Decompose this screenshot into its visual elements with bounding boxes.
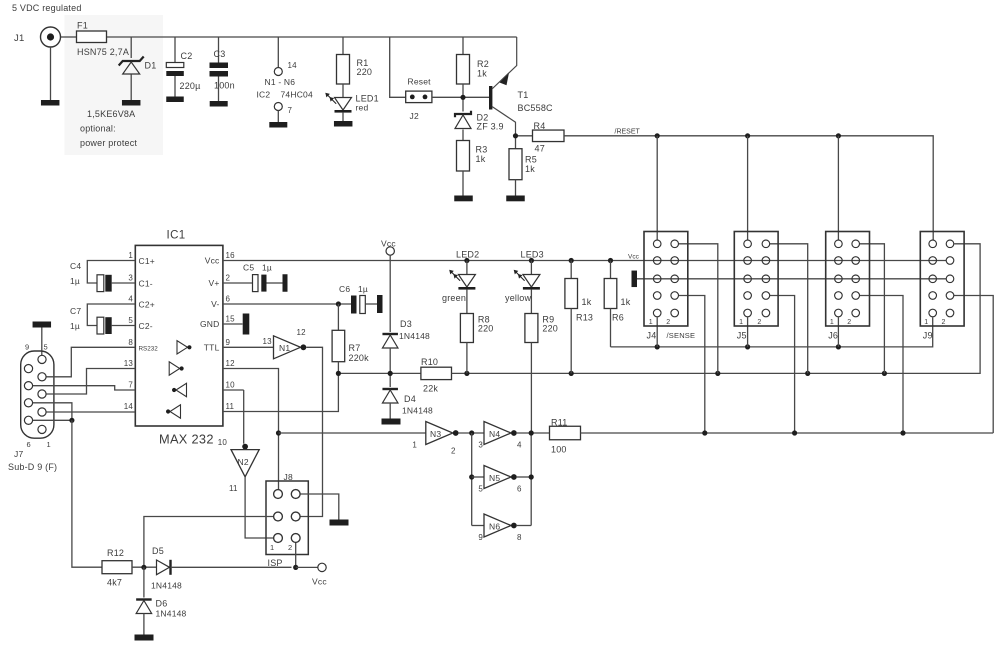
svg-text:2: 2: [226, 274, 231, 283]
svg-text:green: green: [442, 293, 466, 303]
svg-text:8: 8: [517, 533, 522, 542]
svg-text:LED3: LED3: [521, 250, 544, 260]
svg-text:6: 6: [517, 485, 522, 494]
svg-text:2: 2: [942, 319, 946, 326]
svg-text:10: 10: [226, 381, 236, 390]
svg-text:1: 1: [830, 319, 834, 326]
svg-text:R5: R5: [525, 155, 537, 165]
svg-text:1µ: 1µ: [70, 321, 80, 331]
svg-text:5 VDC regulated: 5 VDC regulated: [12, 3, 82, 13]
svg-text:12: 12: [297, 328, 307, 337]
svg-text:14: 14: [124, 402, 134, 411]
svg-text:N1 - N6: N1 - N6: [265, 77, 296, 87]
svg-text:2: 2: [847, 319, 851, 326]
svg-text:1k: 1k: [621, 297, 631, 307]
svg-text:Reset: Reset: [408, 77, 432, 87]
svg-text:Vcc: Vcc: [205, 256, 220, 266]
svg-text:/RESET: /RESET: [615, 129, 641, 136]
svg-text:LED2: LED2: [456, 250, 479, 260]
svg-text:3: 3: [128, 274, 133, 283]
svg-text:3: 3: [478, 441, 483, 450]
svg-text:R4: R4: [534, 121, 546, 131]
svg-text:V+: V+: [208, 278, 219, 288]
svg-text:9: 9: [478, 533, 483, 542]
svg-text:11: 11: [229, 484, 238, 493]
svg-text:4k7: 4k7: [107, 578, 122, 588]
svg-text:C4: C4: [70, 261, 81, 271]
svg-text:N4: N4: [489, 429, 500, 439]
svg-text:/SENSE: /SENSE: [667, 331, 696, 340]
svg-text:C5: C5: [243, 263, 254, 273]
svg-text:100: 100: [551, 445, 567, 455]
svg-text:2: 2: [757, 319, 761, 326]
svg-text:N1: N1: [279, 343, 290, 353]
svg-text:R12: R12: [107, 548, 124, 558]
svg-text:16: 16: [226, 251, 236, 260]
svg-text:1: 1: [270, 543, 274, 552]
svg-text:C2-: C2-: [139, 321, 153, 331]
svg-text:D6: D6: [156, 599, 168, 609]
svg-text:C1+: C1+: [139, 256, 155, 266]
svg-text:7: 7: [128, 381, 133, 390]
svg-text:Vcc: Vcc: [312, 577, 327, 587]
svg-text:C7: C7: [70, 306, 81, 316]
svg-text:8: 8: [128, 338, 133, 347]
svg-text:GND: GND: [200, 319, 220, 329]
svg-text:6: 6: [226, 295, 231, 304]
svg-text:RS232: RS232: [139, 345, 159, 352]
svg-text:220k: 220k: [349, 353, 370, 363]
svg-text:1: 1: [47, 440, 51, 449]
svg-text:V-: V-: [211, 299, 219, 309]
svg-text:N3: N3: [430, 429, 441, 439]
svg-text:T1: T1: [518, 90, 529, 100]
svg-text:J5: J5: [737, 331, 747, 341]
svg-text:BC558C: BC558C: [518, 103, 554, 113]
svg-text:1,5KE6V8A: 1,5KE6V8A: [87, 109, 135, 119]
svg-text:ISP: ISP: [268, 558, 283, 568]
svg-text:220: 220: [542, 324, 558, 334]
svg-text:N5: N5: [489, 473, 500, 483]
svg-text:220: 220: [478, 324, 494, 334]
svg-text:2: 2: [288, 543, 292, 552]
svg-text:11: 11: [226, 402, 235, 411]
svg-text:1: 1: [739, 319, 743, 326]
svg-text:220: 220: [357, 67, 373, 77]
svg-text:1k: 1k: [525, 164, 535, 174]
svg-text:J9: J9: [923, 331, 933, 341]
svg-text:Sub-D 9 (F): Sub-D 9 (F): [8, 462, 57, 472]
svg-text:J7: J7: [14, 449, 23, 459]
svg-text:D5: D5: [152, 546, 164, 556]
svg-text:1µ: 1µ: [358, 284, 368, 294]
svg-text:1k: 1k: [582, 297, 592, 307]
svg-text:HSN75 2,7A: HSN75 2,7A: [77, 47, 129, 57]
svg-text:ZF 3.9: ZF 3.9: [477, 122, 504, 132]
svg-text:optional:: optional:: [80, 124, 116, 134]
svg-text:1k: 1k: [476, 154, 486, 164]
svg-text:22k: 22k: [423, 384, 438, 394]
svg-text:C2+: C2+: [139, 300, 155, 310]
svg-text:1µ: 1µ: [70, 276, 80, 286]
svg-text:R7: R7: [349, 343, 361, 353]
svg-text:1: 1: [649, 319, 653, 326]
svg-text:C1-: C1-: [139, 279, 153, 289]
svg-text:1: 1: [128, 251, 133, 260]
svg-text:47: 47: [535, 144, 545, 154]
svg-text:220µ: 220µ: [180, 81, 201, 91]
svg-text:D1: D1: [145, 61, 157, 71]
svg-text:1N4148: 1N4148: [399, 331, 430, 341]
svg-text:J4: J4: [647, 331, 657, 341]
svg-text:IC1: IC1: [167, 230, 186, 242]
svg-text:N2: N2: [238, 457, 249, 467]
svg-text:IC2: IC2: [257, 90, 271, 100]
svg-text:14: 14: [288, 61, 298, 70]
svg-text:12: 12: [226, 359, 236, 368]
svg-text:1: 1: [412, 441, 417, 450]
svg-text:R3: R3: [476, 145, 488, 155]
svg-text:100n: 100n: [214, 81, 235, 91]
svg-text:power protect: power protect: [80, 138, 137, 148]
svg-text:10: 10: [218, 438, 228, 447]
svg-text:74HC04: 74HC04: [281, 90, 313, 100]
svg-text:J6: J6: [828, 331, 838, 341]
svg-text:13: 13: [263, 337, 273, 346]
svg-text:J8: J8: [284, 472, 293, 482]
svg-text:red: red: [356, 103, 369, 113]
svg-text:9: 9: [25, 343, 29, 352]
svg-text:1N4148: 1N4148: [151, 581, 182, 591]
svg-text:4: 4: [517, 441, 522, 450]
svg-text:15: 15: [226, 315, 236, 324]
svg-text:F1: F1: [77, 21, 88, 31]
svg-text:D4: D4: [404, 394, 416, 404]
svg-text:6: 6: [27, 440, 31, 449]
svg-text:C3: C3: [214, 49, 226, 59]
svg-text:1N4148: 1N4148: [156, 609, 187, 619]
svg-text:1: 1: [924, 319, 928, 326]
svg-text:5: 5: [128, 316, 133, 325]
svg-text:2: 2: [451, 447, 456, 456]
svg-text:7: 7: [288, 106, 293, 115]
svg-text:D3: D3: [400, 319, 412, 329]
svg-text:9: 9: [226, 338, 231, 347]
svg-text:C6: C6: [339, 284, 350, 294]
svg-text:R10: R10: [421, 357, 438, 367]
svg-text:R2: R2: [477, 59, 489, 69]
svg-text:R6: R6: [612, 313, 624, 323]
svg-text:TTL: TTL: [204, 343, 220, 353]
svg-text:MAX 232: MAX 232: [159, 432, 214, 447]
svg-text:2: 2: [666, 319, 670, 326]
svg-text:J1: J1: [14, 33, 24, 44]
svg-text:5: 5: [44, 343, 48, 352]
svg-text:C2: C2: [181, 51, 193, 61]
svg-text:N6: N6: [489, 522, 500, 532]
svg-text:1k: 1k: [477, 69, 487, 79]
svg-text:yellow: yellow: [505, 293, 532, 303]
svg-text:1µ: 1µ: [262, 263, 272, 273]
svg-text:5: 5: [478, 485, 483, 494]
svg-text:R11: R11: [551, 418, 567, 428]
svg-text:Vcc: Vcc: [628, 254, 640, 261]
svg-text:R13: R13: [576, 313, 593, 323]
svg-text:1N4148: 1N4148: [402, 406, 433, 416]
svg-text:4: 4: [128, 295, 133, 304]
svg-text:Vcc: Vcc: [381, 239, 396, 249]
svg-text:13: 13: [124, 359, 134, 368]
svg-text:J2: J2: [410, 111, 419, 121]
